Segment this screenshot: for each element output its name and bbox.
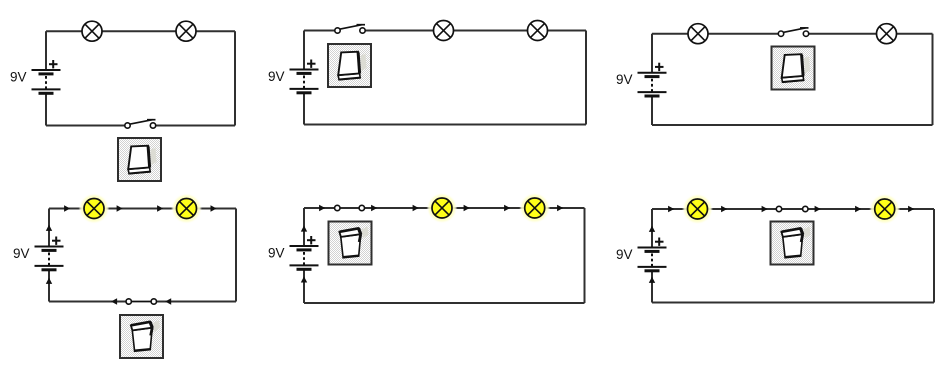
wire: C6 left vertical, bottom corner to battery - [651, 272, 653, 303]
switch S6 (closed) : contact circles bridged [776, 206, 808, 211]
lamp L10 (lit) [519, 193, 550, 224]
wire: C4 left vertical, top corner to battery + [48, 209, 50, 247]
lamp L9 (lit) [427, 193, 458, 224]
wire: C2 left vertical, top corner to battery + [303, 31, 305, 70]
wire: C1 bottom, right corner to switch contact [153, 125, 235, 127]
lamp L3 (off) [434, 21, 454, 41]
svg-text:9V: 9V [13, 246, 30, 261]
wire: C6 left vertical, top corner to battery + [651, 209, 653, 248]
wire: C2 top, left corner to switch [304, 30, 338, 32]
switch S6 panel : rocker switch pictogram (ON) [771, 222, 814, 265]
switch S1 (open) : contact circles and lever [125, 120, 156, 129]
wire: C4 left vertical, bottom corner to battery - [48, 271, 50, 302]
wire: C3 top, left corner through lamp to switch [652, 33, 781, 35]
wire: C5 bottom return [304, 302, 585, 304]
svg-text:9V: 9V [10, 70, 27, 85]
switch S1 panel : rocker switch pictogram (OFF) [118, 138, 161, 181]
switch S3 panel : rocker switch pictogram (OFF) [772, 47, 815, 90]
wire: C3 left vertical, bottom corner to battery - [651, 97, 653, 125]
svg-text:9V: 9V [616, 72, 633, 87]
wire: C5 right vertical [584, 208, 586, 303]
battery + polarity mark [307, 60, 316, 68]
battery + polarity mark [307, 236, 316, 244]
wire: C1 bottom, switch contact to left corner [46, 125, 128, 127]
current direction arrows: C4 left wire, current flowing up [46, 225, 52, 284]
current direction arrows: C4 bottom wire, current flowing left [111, 298, 171, 304]
wire: C2 left vertical, bottom corner to battery - [303, 94, 305, 125]
wire: C6 right vertical [933, 209, 935, 303]
switch S4 (closed) : contact circles bridged [126, 299, 157, 304]
battery + polarity mark [52, 237, 61, 245]
current direction arrows: C5 top wire, current flowing right [319, 205, 563, 211]
wire: C1 left vertical, bottom corner to battery - [45, 95, 47, 126]
wire: C1 right vertical [234, 31, 236, 125]
wire: C6 bottom return [652, 302, 934, 304]
battery + polarity mark [655, 238, 664, 246]
battery + polarity mark [49, 60, 58, 68]
wire: C5 left vertical, bottom corner to battery - [303, 271, 305, 304]
wire: C3 right vertical [932, 34, 934, 125]
switch S5 panel : rocker switch pictogram (ON) [329, 222, 372, 265]
current direction arrows: C6 top wire, current flowing right [668, 206, 914, 212]
lamp L7 (lit) [79, 193, 110, 224]
switch S4 panel : rocker switch pictogram (ON) [120, 315, 163, 358]
battery B6 9V (2-cell battery symbol, + top) [638, 248, 667, 273]
wire: C6 top, switch through lamp to top-right corner [805, 208, 934, 210]
switch S2 (open) : contact circles and lever [335, 25, 365, 34]
wire: C5 left vertical, top corner to battery + [303, 208, 305, 246]
battery B3 9V (2-cell battery symbol, + top) [638, 73, 667, 98]
switch S2 panel : rocker switch pictogram (OFF) [328, 44, 371, 87]
battery B5 9V (2-cell battery symbol, + top) [290, 246, 319, 271]
lamp L5 (off) [688, 24, 708, 44]
wire: C5 top, left corner to switch [304, 207, 337, 209]
current direction arrows: C6 left wire, current flowing up [649, 226, 655, 283]
wire: C4 right vertical [235, 209, 237, 302]
wire: C2 bottom return [304, 124, 586, 126]
battery B1 9V (2-cell battery symbol, + top) [32, 70, 61, 95]
wire: C3 top, switch through lamp to top-right corner [806, 33, 933, 35]
battery B2 9V (2-cell battery symbol, + top) [290, 70, 319, 95]
current direction arrows: C5 left wire, current flowing up [301, 226, 307, 283]
wire: C1 left vertical, top corner to battery + [45, 31, 47, 70]
lamp L6 (off) [877, 24, 897, 44]
lamp L12 (lit) [869, 194, 900, 225]
switch S5 (closed) : contact circles bridged [335, 205, 365, 210]
wire: C6 top, left corner through lamp to switch [652, 208, 779, 210]
switch S3 (open) : contact circles and lever [778, 28, 808, 37]
current direction arrows: C4 top wire, current flowing right [64, 205, 217, 211]
wire: C2 right vertical [585, 31, 587, 125]
wire: C2 top, switch to lamps to top-right corner [363, 30, 587, 32]
wire: C3 bottom return [652, 124, 933, 126]
battery B4 9V (2-cell battery symbol, + top) [35, 247, 64, 272]
wire: C3 left vertical, top corner to battery + [651, 34, 653, 73]
wire: C1 top, battery + to lamps to top-right corner [46, 30, 235, 32]
battery + polarity mark [655, 63, 664, 71]
lamp L11 (lit) [682, 194, 713, 225]
lamp L4 (off) [528, 21, 548, 41]
wire: C4 bottom, switch contact to left corner [49, 301, 129, 303]
svg-text:9V: 9V [268, 246, 285, 261]
svg-text:9V: 9V [268, 69, 285, 84]
svg-text:9V: 9V [616, 247, 633, 262]
lamp L2 (off) [176, 21, 196, 41]
wire: C4 top, battery + through lamps to top-right corner [49, 208, 236, 210]
lamp L8 (lit) [171, 193, 202, 224]
lamp L1 (off) [82, 21, 102, 41]
wire: C4 bottom, right corner to switch contact [154, 301, 236, 303]
wire: C5 top, switch through lamps to top-right corner [362, 207, 585, 209]
